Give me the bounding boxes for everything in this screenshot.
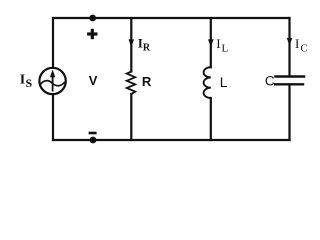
wire: L branch upper [210, 18, 212, 67]
arrow inside current source [52, 75, 54, 92]
wire: C branch lower [288, 85, 290, 140]
node dot top (junction at V+) [89, 15, 96, 22]
plus sign (+) [87, 32, 97, 35]
wire: L branch lower [210, 98, 212, 140]
capacitor C top plate [276, 75, 305, 77]
wire: R branch upper [130, 18, 132, 72]
wire: left rail lower (Is branch bottom) [52, 94, 54, 140]
current arrow IL (arrowhead on L branch) [208, 39, 214, 47]
minus sign (-) [89, 132, 97, 135]
node dot bottom (junction at V-) [90, 137, 97, 144]
inductor L coil [204, 67, 211, 98]
current arrow IR (arrowhead on R branch) [129, 39, 135, 47]
wire: bottom rail [53, 139, 290, 141]
svg-text:L: L [220, 74, 228, 90]
current source Is (AC source circle) [39, 68, 65, 94]
wire: R branch lower [130, 94, 132, 140]
wire: left rail upper (Is branch top) [52, 18, 54, 68]
current arrow IC (arrowhead on C branch) [287, 38, 293, 46]
resistor R zigzag [127, 72, 136, 95]
svg-text:C: C [265, 74, 275, 89]
wire: C branch upper [288, 18, 290, 75]
svg-text:R: R [142, 74, 152, 89]
capacitor C bottom plate [275, 83, 303, 85]
sine wave inside current source [40, 81, 65, 86]
svg-text:V: V [89, 73, 98, 88]
wire: top rail [53, 17, 290, 19]
